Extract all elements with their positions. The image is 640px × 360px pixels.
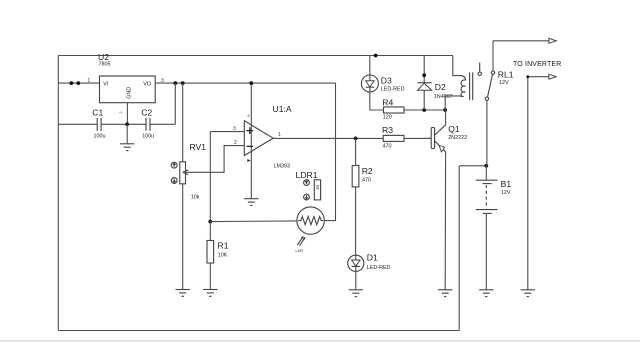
node gnd junction [125, 122, 129, 126]
wire C1 left [58, 123, 97, 125]
wire arrow 2 branch [528, 77, 549, 290]
node divider junction [208, 220, 212, 224]
wire relay NO to arrow [493, 40, 549, 42]
svg-text:12V: 12V [499, 80, 509, 86]
op-amp U1:A [233, 81, 292, 199]
wire C2 right [150, 123, 175, 125]
node arrow corner dot [526, 75, 529, 78]
wire RV1 top riser [182, 83, 184, 162]
svg-text:Q1: Q1 [448, 124, 460, 134]
node dot A [70, 81, 74, 85]
svg-text:470: 470 [383, 143, 392, 149]
wire right riser to battery node [458, 166, 460, 331]
capacitor C2 [141, 107, 154, 139]
svg-text:LDR: LDR [296, 249, 304, 253]
svg-text:1: 1 [88, 78, 91, 84]
svg-text:GND: GND [127, 87, 133, 99]
wire D3 top [369, 56, 371, 76]
wire node to LDR [210, 220, 297, 223]
svg-text:2: 2 [119, 111, 123, 113]
wire R4 to collector node [404, 109, 445, 111]
ground C junction [120, 144, 134, 151]
wire R2 to D1 [355, 187, 357, 255]
LDR1 photoresistor [296, 207, 325, 253]
node dot D [181, 81, 185, 85]
svg-text:LM393: LM393 [274, 164, 290, 170]
svg-text:1N4007: 1N4007 [434, 94, 453, 100]
svg-text:LDR1: LDR1 [296, 170, 318, 180]
svg-text:100u: 100u [142, 133, 154, 139]
node battery junction [484, 164, 488, 168]
wire R1 bottom [209, 263, 211, 290]
wire op-amp output [273, 137, 383, 139]
node dot C [173, 81, 177, 85]
wire Q1 base [424, 137, 431, 139]
wire relay common riser [486, 100, 488, 165]
resistor R3 [382, 125, 404, 150]
svg-text:D1: D1 [367, 253, 378, 263]
svg-text:C2: C2 [141, 107, 152, 117]
battery B1 [476, 166, 512, 290]
svg-text:2N2222: 2N2222 [448, 135, 467, 141]
svg-text:8: 8 [248, 114, 250, 118]
ground R1 [203, 290, 217, 297]
svg-text:1: 1 [278, 132, 281, 138]
svg-text:RL1: RL1 [498, 70, 514, 80]
relay RL1 coil [445, 56, 473, 111]
ground battery [479, 290, 493, 297]
svg-text:3: 3 [233, 126, 236, 132]
node collector junction [443, 108, 447, 112]
svg-text:R1: R1 [218, 241, 229, 251]
wire RV1 bottom to ground [182, 184, 184, 290]
ground Q1 emitter [438, 290, 452, 297]
output arrow 2 [549, 74, 556, 79]
node dot B [76, 81, 80, 85]
wire U2 gnd pin [126, 103, 128, 125]
node D2 upper dot [422, 73, 426, 77]
node D2 bottom junction [422, 108, 426, 112]
output arrow 1 [549, 38, 556, 43]
wire bottom frame [58, 330, 459, 332]
wire left frame vertical [57, 56, 59, 331]
svg-text:TO INVERTER: TO INVERTER [513, 61, 561, 68]
wire riser C2 to output [174, 83, 176, 124]
wire U2 output [155, 82, 335, 84]
wire R1 top [209, 222, 211, 241]
wire top +12V rail [58, 55, 453, 57]
ground inverter return [521, 290, 535, 297]
svg-text:U1:A: U1:A [273, 104, 292, 114]
svg-text:VI: VI [103, 82, 108, 88]
wire U2 input [58, 82, 99, 84]
svg-text:R3: R3 [382, 125, 393, 135]
relay RL1 contacts [478, 41, 514, 101]
node rail dot D3 [374, 54, 378, 58]
potentiometer RV1 [171, 142, 206, 200]
wire D2 vertical [423, 56, 425, 111]
diode D2 [418, 82, 453, 100]
wire battery feed [459, 165, 486, 167]
svg-text:470: 470 [362, 178, 371, 184]
wire D1 bottom [355, 271, 357, 289]
wire R3 to base [404, 137, 431, 139]
wire Q1 emitter riser [444, 152, 446, 290]
svg-text:10K: 10K [218, 252, 228, 258]
ground D1 [349, 290, 363, 297]
svg-text:LED-RED: LED-RED [381, 86, 405, 92]
LED D1 [348, 253, 391, 272]
svg-text:D3: D3 [381, 75, 392, 85]
svg-text:2: 2 [234, 140, 237, 146]
wire pin3 riser [209, 132, 211, 222]
node output junction [354, 137, 358, 141]
transistor Q1 [431, 110, 467, 152]
svg-text:10: 10 [315, 184, 320, 190]
svg-text:R2: R2 [362, 166, 373, 176]
wire D3 to R4 [370, 92, 384, 110]
svg-text:D2: D2 [435, 82, 446, 92]
svg-text:B1: B1 [501, 179, 512, 189]
LDR1 torch widget [296, 170, 321, 200]
capacitor C1 [92, 107, 105, 139]
svg-text:U2: U2 [98, 52, 109, 62]
wire C1 to gnd node [101, 123, 146, 125]
wire pin3 horizontal [210, 131, 244, 133]
svg-text:R4: R4 [382, 97, 393, 107]
frame bottom faint page line [0, 340, 640, 342]
ground RV1 [176, 290, 190, 297]
LED D3 [361, 75, 404, 92]
svg-text:100u: 100u [94, 133, 106, 139]
wire RV1 wiper to pin2 [186, 146, 245, 173]
svg-text:VO: VO [143, 82, 151, 88]
wire LDR right riser [324, 83, 335, 221]
resistor R4 [382, 97, 404, 120]
svg-text:RV1: RV1 [190, 142, 207, 152]
resistor R1 [207, 241, 229, 264]
wire gnd node stem [126, 124, 128, 144]
svg-text:12V: 12V [501, 190, 511, 196]
svg-text:7805: 7805 [99, 62, 111, 68]
ground op-amp [244, 199, 258, 206]
resistor R2 [352, 166, 373, 187]
svg-text:120: 120 [383, 114, 392, 120]
regulator U2 7805 [98, 52, 155, 103]
svg-text:LED-RED: LED-RED [367, 265, 391, 271]
wire R2 top [355, 138, 357, 165]
svg-text:10k: 10k [191, 194, 200, 200]
svg-text:C1: C1 [92, 107, 103, 117]
